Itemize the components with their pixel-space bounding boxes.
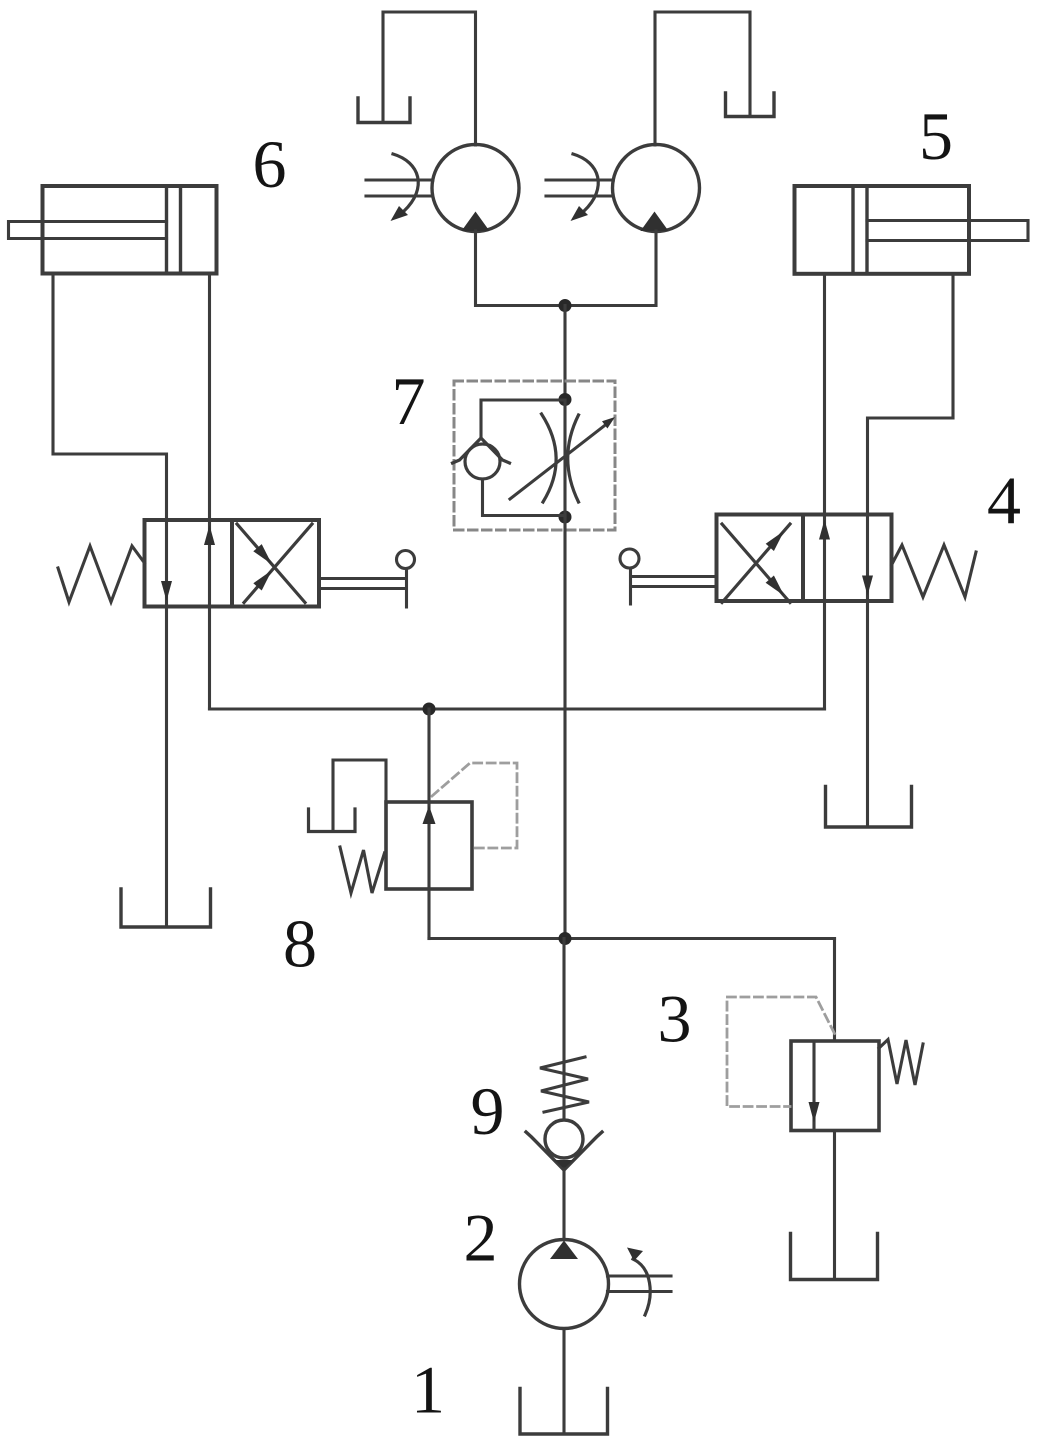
- motor M1 rotation arrow: [393, 154, 418, 211]
- cylinder 6 barrel: [43, 186, 217, 274]
- variable arrow (valve 7): [510, 426, 604, 499]
- check valve 9 seat: [526, 1132, 602, 1170]
- wire check valve branch top: [481, 400, 565, 439]
- throttle line through valve 7: [563, 400, 566, 517]
- wire to relief valve 3: [833, 939, 836, 1042]
- junction motors: [559, 299, 572, 312]
- pump 2 rotation arrow: [633, 1259, 650, 1315]
- wire junction down to relief valve 8: [427, 709, 430, 802]
- motor M1 shaft: [366, 180, 433, 196]
- svg-text:7: 7: [392, 363, 426, 439]
- junction common line: [423, 703, 436, 716]
- tank of relief valve 8: [309, 809, 356, 832]
- valve left flow line B: [208, 520, 211, 607]
- cylinder 5 barrel: [795, 186, 970, 274]
- cylinder 6 rod: [9, 222, 167, 239]
- tank of relief valve 3: [791, 1234, 878, 1280]
- relief valve 8 drain to tank: [333, 760, 386, 829]
- cylinder 5 piston: [853, 186, 867, 274]
- check valve ball (valve 7): [465, 444, 500, 479]
- directional valve 4 divider: [801, 515, 805, 602]
- valve 4 flow line B: [866, 515, 869, 602]
- svg-text:3: 3: [658, 981, 692, 1057]
- wire motor M1 outlet: [476, 231, 566, 306]
- cylinder 5 rod: [867, 221, 1028, 241]
- valve 4 crossed paths: [722, 524, 790, 603]
- wire relief valve 8 outlet: [427, 889, 430, 939]
- junction bottom line: [559, 932, 572, 945]
- valve 4 spring: [892, 545, 977, 597]
- relief valve 8 pilot line: [432, 763, 517, 848]
- svg-text:6: 6: [253, 126, 287, 202]
- svg-text:9: 9: [471, 1073, 505, 1149]
- relief valve 8 flow line: [427, 802, 430, 889]
- wire valve left port P down: [208, 607, 211, 710]
- svg-text:1: 1: [411, 1352, 445, 1428]
- throttle arcs (valve 7): [542, 414, 579, 502]
- svg-text:4: 4: [987, 463, 1021, 539]
- motor M1 flow triangle: [462, 212, 490, 232]
- valve left flow line A: [165, 520, 168, 607]
- check valve 9 ball: [545, 1120, 583, 1158]
- wire check valve branch bottom: [483, 479, 566, 516]
- motor M2: [613, 145, 700, 232]
- node valve7 bottom: [559, 511, 572, 524]
- wire cylinder 6 left port: [53, 274, 167, 521]
- wire cylinder 6 right port: [208, 274, 211, 521]
- tank top-left: [358, 98, 410, 123]
- wire pump 2 to tank 1: [562, 1329, 565, 1434]
- motor M2 rotation arrow: [573, 154, 598, 211]
- wire valve 4 to tank: [866, 601, 869, 827]
- wire common line left-right: [210, 707, 825, 710]
- cylinder 6 piston: [167, 186, 181, 274]
- directional valve left body: [145, 520, 320, 607]
- tank top-right: [726, 93, 775, 117]
- valve 4 flow line A: [823, 515, 826, 602]
- directional valve left divider: [230, 520, 234, 607]
- wire junction to valve 7: [563, 306, 566, 401]
- check valve seat (valve 7): [453, 438, 510, 463]
- wire common line up to valve right: [823, 601, 826, 709]
- valve 4 lever: [631, 568, 717, 604]
- wire main pressure line center: [563, 517, 566, 939]
- svg-text:8: 8: [283, 906, 317, 982]
- pump 2 flow triangle: [550, 1241, 578, 1260]
- motor M1: [432, 145, 519, 232]
- valve left crossed paths: [237, 524, 312, 603]
- flow control valve 7 dashed enclosure: [454, 381, 615, 530]
- wire cylinder 5 right port: [868, 274, 954, 515]
- relief valve 3 pilot line: [727, 997, 835, 1107]
- pump 2 shaft: [608, 1276, 672, 1292]
- tank below left valve: [121, 889, 211, 927]
- relief valve 3 flow line: [812, 1041, 815, 1131]
- svg-text:5: 5: [919, 98, 953, 174]
- relief valve 3 spring: [879, 1040, 923, 1086]
- relief valve 8 body: [386, 802, 472, 889]
- wire valve left to tank: [165, 607, 168, 927]
- wire bottom distribution line: [429, 937, 835, 940]
- wire motor M1 top to tank: [383, 12, 476, 145]
- tank below valve 4: [826, 787, 912, 828]
- svg-text:2: 2: [464, 1200, 498, 1276]
- directional valve 4 body: [717, 515, 892, 602]
- motor M2 shaft: [546, 180, 613, 196]
- valve left spring: [58, 546, 145, 602]
- relief valve 8 spring: [340, 847, 385, 893]
- tank 1: [520, 1389, 608, 1435]
- wire motor M2 top to tank: [655, 12, 750, 145]
- wire motor M2 outlet: [565, 231, 656, 306]
- node valve7 top: [559, 393, 572, 406]
- motor M2 flow triangle: [641, 212, 669, 232]
- wire cylinder 5 left port: [823, 274, 826, 515]
- wire relief valve 3 to tank: [833, 1131, 836, 1280]
- check valve 9 spring: [540, 1057, 589, 1112]
- wire check valve 9 to pump: [562, 1169, 565, 1240]
- relief valve 3 body: [791, 1041, 879, 1131]
- pump 2: [520, 1240, 609, 1329]
- valve left lever: [319, 570, 407, 607]
- wire through spring 9: [562, 939, 565, 1121]
